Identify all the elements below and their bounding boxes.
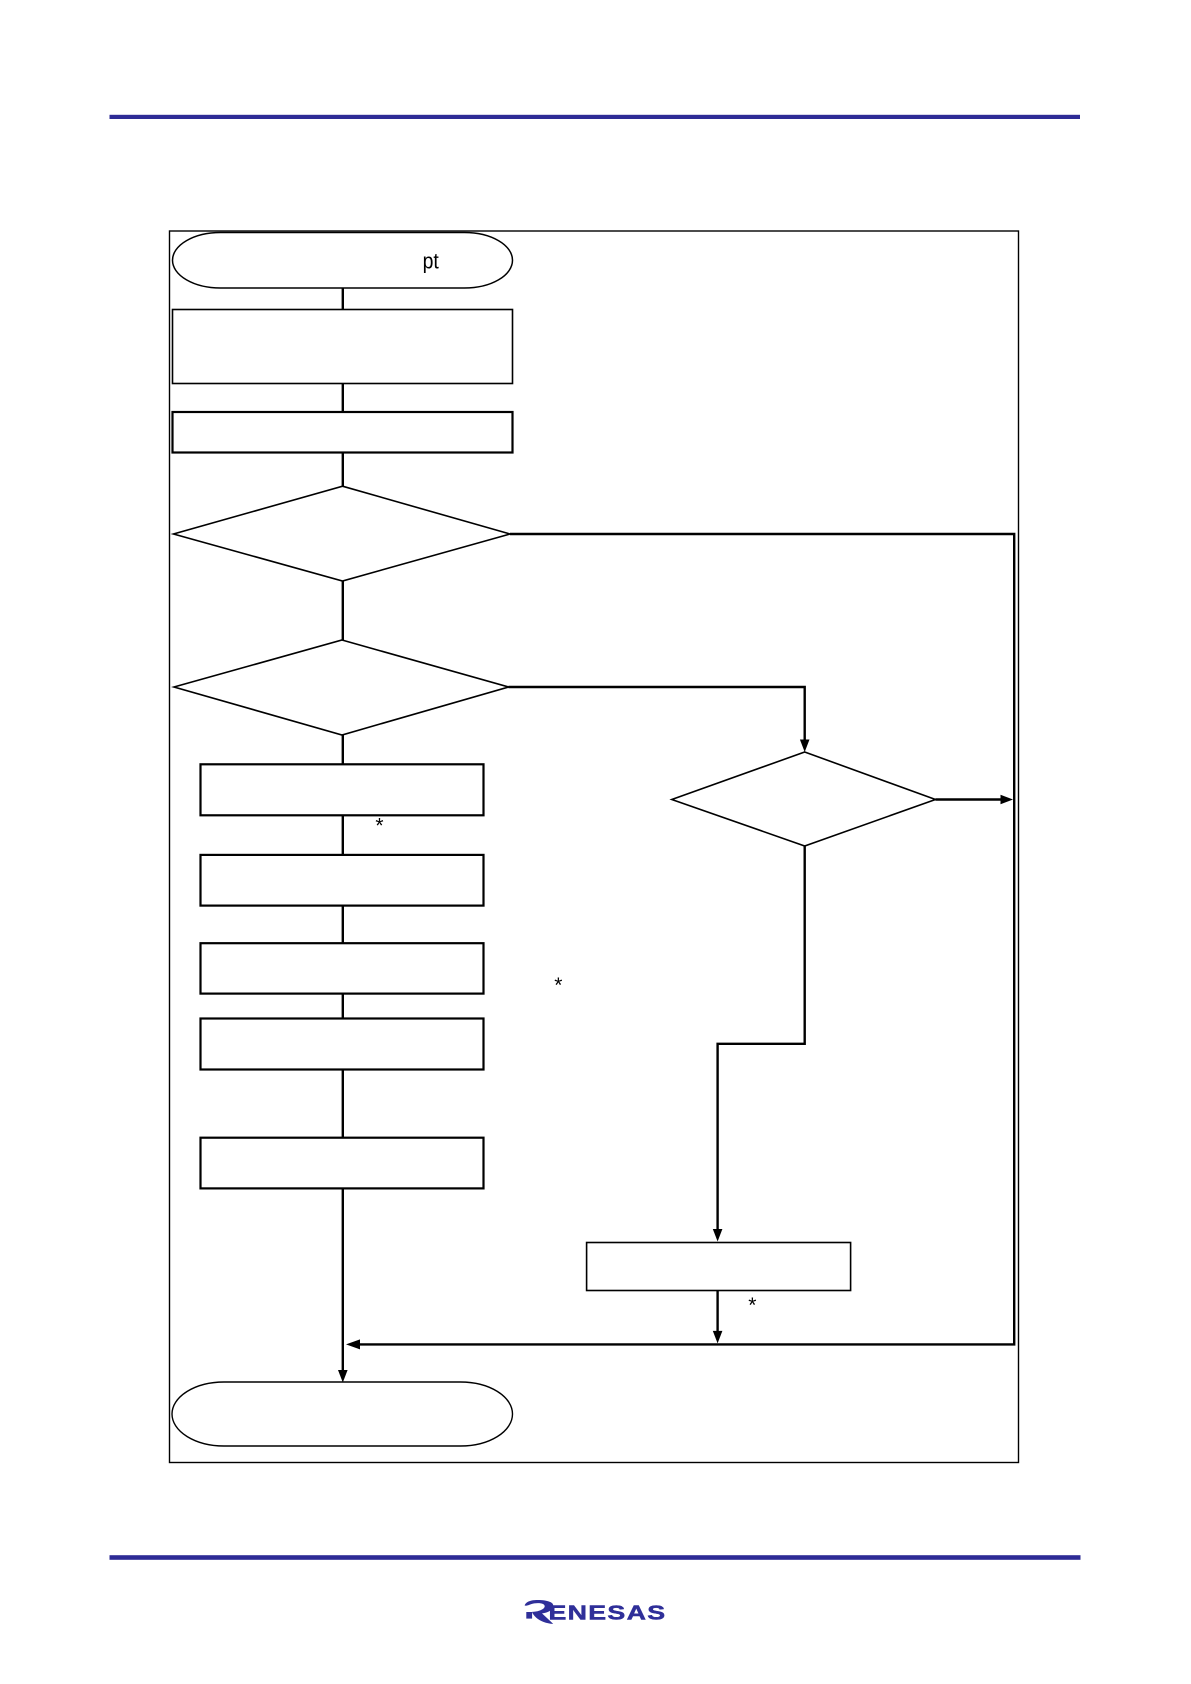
svg-text:*: * — [375, 815, 383, 838]
svg-text:pt: pt — [423, 248, 439, 273]
svg-text:*: * — [554, 974, 562, 997]
svg-text:*: * — [748, 1294, 756, 1317]
svg-text:ENESAS: ENESAS — [549, 1601, 667, 1624]
